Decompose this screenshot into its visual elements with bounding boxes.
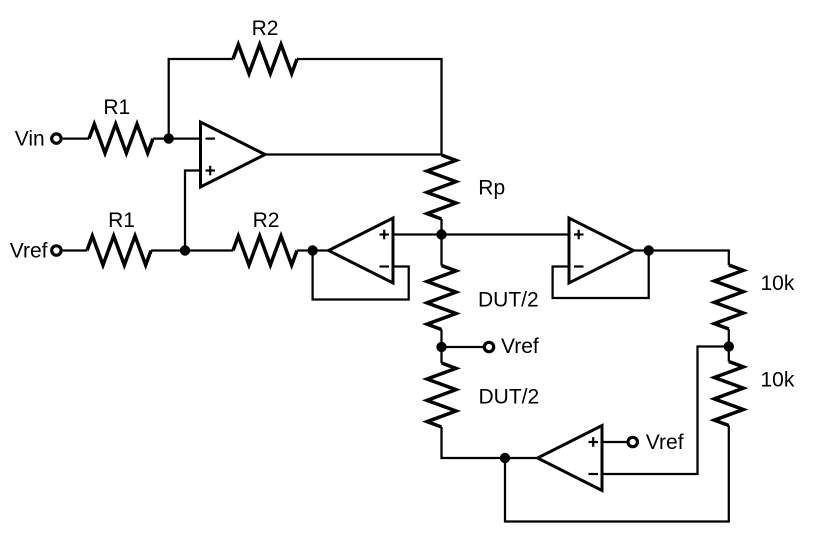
wire U3 output to 10k upper bbox=[634, 251, 729, 266]
svg-text:Vref: Vref bbox=[501, 335, 539, 358]
svg-text:R1: R1 bbox=[103, 96, 130, 119]
terminal Vref (mid) bbox=[484, 342, 493, 351]
svg-text:10k: 10k bbox=[761, 368, 795, 391]
node E junction (U3 output) bbox=[644, 245, 654, 255]
wire U1 noninverting input to node C bbox=[185, 171, 201, 251]
node C junction (Vref row tap) bbox=[180, 245, 190, 255]
wire R1 to R2 (Vref row) bbox=[151, 249, 233, 251]
svg-text:Vref: Vref bbox=[646, 431, 684, 454]
resistor 10k (lower) bbox=[714, 362, 743, 426]
wire U1 output to Rp top bbox=[265, 153, 442, 155]
terminal Vref (left input) bbox=[52, 246, 61, 255]
wire node G to DUT/2 lower bbox=[440, 347, 442, 363]
svg-text:Vin: Vin bbox=[15, 128, 45, 151]
node D junction (U2 output) bbox=[307, 245, 317, 255]
op-amp U1 bbox=[201, 122, 266, 187]
resistor 10k (upper) bbox=[714, 265, 743, 329]
wire Vref terminal to R1 bbox=[63, 249, 87, 251]
wire R1 to U1 inverting input bbox=[153, 137, 201, 139]
wire DUT/2 lower bottom to U4 output bbox=[442, 427, 538, 458]
node B junction (Rp / DUT / buffer node) bbox=[436, 229, 446, 239]
wire R2 to U2 output bbox=[297, 249, 329, 251]
svg-text:R2: R2 bbox=[252, 17, 279, 40]
resistor DUT/2 (upper) bbox=[427, 266, 456, 330]
wire node A up to R2 feedback bbox=[169, 59, 233, 139]
svg-text:10k: 10k bbox=[761, 272, 795, 295]
svg-text:DUT/2: DUT/2 bbox=[479, 385, 540, 408]
wire U4 inverting input to node F bbox=[602, 347, 729, 475]
node G junction (DUT midpoint) bbox=[436, 342, 446, 352]
svg-text:Rp: Rp bbox=[478, 177, 505, 200]
op-amp U3 (right buffer) bbox=[569, 218, 634, 283]
svg-text:R1: R1 bbox=[108, 209, 135, 232]
wire U4 noninverting input to Vref terminal bbox=[602, 441, 628, 443]
wire R2 right end down to U1 output node bbox=[297, 59, 442, 155]
svg-text:Vref: Vref bbox=[10, 240, 48, 263]
svg-text:DUT/2: DUT/2 bbox=[478, 288, 539, 311]
op-amp U4 (left-pointing driver) bbox=[538, 426, 603, 491]
node H junction (U4 output node) bbox=[500, 453, 510, 463]
node A junction (Vin summing node) bbox=[164, 133, 174, 143]
wire Vin terminal to R1 bbox=[63, 137, 89, 139]
node F junction (10k divider midpoint) bbox=[724, 341, 734, 351]
wire node B to DUT/2 upper bbox=[440, 235, 442, 266]
wire 10k upper to 10k lower through node F bbox=[728, 329, 730, 362]
resistor R2 (feedback) bbox=[233, 45, 297, 74]
resistor R1 (Vref input) bbox=[87, 236, 151, 265]
wire bottom loop node H to 10k lower bottom bbox=[505, 426, 729, 522]
wire U3 feedback output to inverting input bbox=[553, 251, 649, 299]
wire DUT/2 upper to node G bbox=[440, 330, 442, 348]
terminal Vin bbox=[52, 134, 61, 143]
resistor DUT/2 (lower) bbox=[427, 363, 456, 427]
wire Rp bottom to node B bbox=[440, 219, 442, 235]
wire U2 feedback output to inverting input bbox=[313, 251, 409, 300]
wire node G to Vref mid terminal bbox=[442, 346, 485, 348]
resistor R1 (Vin input) bbox=[89, 124, 153, 153]
resistor R2 (Vref row) bbox=[233, 236, 297, 265]
terminal Vref (bottom) bbox=[628, 437, 637, 446]
wire node B horizontal U2+ to U3+ bbox=[393, 233, 569, 235]
resistor Rp bbox=[427, 155, 456, 219]
svg-text:R2: R2 bbox=[253, 209, 280, 232]
op-amp U2 (left-pointing buffer) bbox=[329, 218, 394, 283]
